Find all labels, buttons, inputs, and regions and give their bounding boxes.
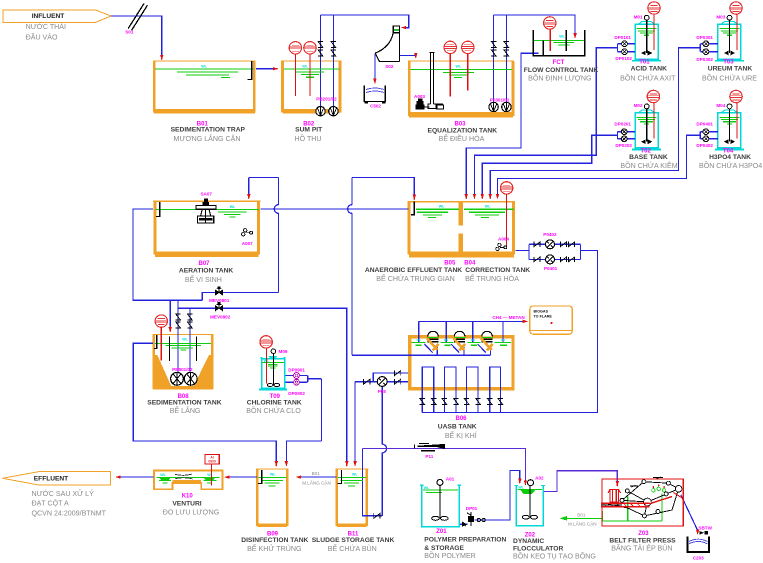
svg-text:M02: M02	[634, 103, 643, 108]
svg-text:P0401: P0401	[544, 266, 558, 271]
svg-text:WL: WL	[424, 486, 430, 490]
svg-text:BĂNG TẢI ÉP BÙN: BĂNG TẢI ÉP BÙN	[611, 543, 672, 552]
svg-text:BỒN CHỨA AXIT: BỒN CHỨA AXIT	[620, 73, 676, 83]
svg-text:BỂ KHỬ TRÙNG: BỂ KHỬ TRÙNG	[247, 544, 301, 553]
svg-text:WL: WL	[456, 65, 462, 69]
svg-text:PB801/02: PB801/02	[172, 367, 193, 372]
svg-text:H3PO4 TANK: H3PO4 TANK	[709, 154, 751, 161]
svg-text:FCT: FCT	[553, 60, 565, 66]
svg-text:S01: S01	[125, 30, 134, 35]
svg-text:NƯỚC SAU XỬ LÝ: NƯỚC SAU XỬ LÝ	[32, 489, 95, 498]
svg-text:BIOGAS: BIOGAS	[534, 310, 549, 314]
svg-text:M01: M01	[634, 15, 643, 20]
svg-text:WL: WL	[559, 35, 565, 39]
svg-text:ĐẠT CỘT A: ĐẠT CỘT A	[32, 499, 69, 508]
svg-text:VENTURI: VENTURI	[172, 501, 201, 508]
svg-text:B06: B06	[455, 416, 467, 422]
svg-text:P0402: P0402	[543, 232, 557, 237]
svg-text:BỒN CHỨA H3PO4: BỒN CHỨA H3PO4	[699, 160, 762, 170]
svg-text:DP0102: DP0102	[615, 56, 632, 61]
svg-text:UASB TANK: UASB TANK	[438, 423, 477, 430]
svg-text:WL: WL	[230, 205, 236, 209]
svg-text:BỂ TRUNG HÒA: BỂ TRUNG HÒA	[465, 274, 519, 283]
svg-text:SLUDGE STORAGE TANK: SLUDGE STORAGE TANK	[312, 537, 395, 544]
svg-text:DYNAMIC: DYNAMIC	[513, 538, 544, 545]
svg-text:A004: A004	[498, 237, 509, 242]
svg-text:EQUALIZATION TANK: EQUALIZATION TANK	[428, 128, 498, 135]
svg-text:HỒ THU: HỒ THU	[294, 133, 321, 143]
svg-text:WL: WL	[518, 486, 524, 490]
svg-text:BỒN KEO TỤ TẠO BÔNG: BỒN KEO TỤ TẠO BÔNG	[513, 550, 596, 560]
svg-text:M03: M03	[716, 15, 725, 20]
svg-text:B05: B05	[444, 261, 456, 267]
svg-text:SUM PIT: SUM PIT	[295, 127, 323, 134]
svg-text:B07: B07	[198, 261, 210, 267]
svg-text:BỂ KỊ KHÍ: BỂ KỊ KHÍ	[445, 431, 477, 440]
svg-text:BỒN CHỨA KIỀM: BỒN CHỨA KIỀM	[620, 160, 677, 170]
svg-text:NƯỚC THẢI: NƯỚC THẢI	[26, 22, 66, 31]
svg-text:WL: WL	[302, 64, 308, 68]
svg-text:BELT FILTER PRESS: BELT FILTER PRESS	[609, 537, 676, 544]
svg-text:DP0901: DP0901	[288, 367, 305, 372]
svg-text:CHLORINE TANK: CHLORINE TANK	[247, 400, 302, 407]
svg-text:WL: WL	[439, 205, 445, 209]
svg-text:DP0201: DP0201	[614, 122, 631, 127]
svg-text:B03: B03	[454, 121, 466, 127]
svg-text:A007: A007	[242, 241, 253, 246]
svg-text:DP0902: DP0902	[288, 391, 305, 396]
svg-text:SBTW: SBTW	[698, 526, 712, 531]
svg-text:C203: C203	[693, 556, 704, 561]
svg-text:BỂ CHỨA TRUNG GIAN: BỂ CHỨA TRUNG GIAN	[376, 274, 454, 283]
svg-text:B01: B01	[312, 471, 321, 476]
svg-text:POLYMER PREPARATION: POLYMER PREPARATION	[424, 536, 506, 543]
svg-text:WL: WL	[182, 337, 188, 341]
svg-text:A003: A003	[414, 94, 425, 99]
svg-text:INFLUENT: INFLUENT	[32, 13, 65, 20]
svg-text:P0301/02: P0301/02	[490, 98, 510, 103]
svg-text:M09: M09	[279, 349, 288, 354]
svg-text:WL: WL	[270, 473, 276, 477]
svg-text:Z01: Z01	[436, 529, 447, 535]
svg-text:A02: A02	[535, 475, 544, 480]
svg-text:MƯƠNG LẮNG CẶN: MƯƠNG LẮNG CẶN	[174, 134, 241, 143]
svg-text:MEV0802: MEV0802	[210, 315, 231, 320]
svg-text:MEV0801: MEV0801	[209, 298, 230, 303]
svg-text:M04: M04	[716, 103, 725, 108]
svg-text:BỒN CHỨA CLO: BỒN CHỨA CLO	[246, 405, 301, 415]
svg-text:WL: WL	[207, 473, 213, 477]
svg-text:ĐẦU VÀO: ĐẦU VÀO	[26, 31, 58, 41]
svg-text:AERATION TANK: AERATION TANK	[179, 267, 234, 274]
svg-text:WL: WL	[352, 473, 358, 477]
svg-text:EFFLUENT: EFFLUENT	[34, 476, 68, 483]
svg-text:DP0101: DP0101	[614, 35, 631, 40]
svg-text:B04: B04	[464, 261, 476, 267]
svg-text:DP0401: DP0401	[696, 122, 713, 127]
svg-text:0809: 0809	[208, 460, 216, 464]
svg-text:BỂ VI SINH: BỂ VI SINH	[185, 275, 222, 284]
svg-text:ĐO LƯU LƯỢNG: ĐO LƯU LƯỢNG	[163, 509, 219, 517]
svg-text:SEDIMENTATION TANK: SEDIMENTATION TANK	[147, 400, 221, 407]
svg-text:CH4 — METAN: CH4 — METAN	[492, 315, 525, 320]
svg-text:WL: WL	[485, 205, 491, 209]
svg-text:CORRECTION TANK: CORRECTION TANK	[465, 267, 530, 274]
svg-text:DISINFECTION TANK: DISINFECTION TANK	[241, 537, 308, 544]
svg-text:P11: P11	[425, 454, 433, 459]
svg-text:K10: K10	[182, 494, 194, 500]
svg-text:& STORAGE: & STORAGE	[424, 545, 464, 552]
svg-text:M.LẮNG CẶN: M.LẮNG CẶN	[568, 520, 597, 527]
svg-text:SA07: SA07	[200, 192, 212, 197]
svg-text:BỂ LẮNG: BỂ LẮNG	[170, 406, 201, 415]
svg-text:PB201/02: PB201/02	[316, 96, 337, 101]
svg-text:C502: C502	[370, 104, 381, 109]
svg-text:FLOW CONTROL TANK: FLOW CONTROL TANK	[524, 67, 599, 74]
svg-text:WL: WL	[201, 64, 207, 68]
svg-text:ANAEROBIC EFFLUENT TANK: ANAEROBIC EFFLUENT TANK	[365, 267, 462, 274]
svg-text:DP01: DP01	[466, 506, 478, 511]
svg-text:Z03: Z03	[638, 531, 649, 537]
svg-text:S02: S02	[385, 64, 394, 69]
svg-text:WL: WL	[160, 473, 166, 477]
svg-text:DP0301: DP0301	[696, 35, 713, 40]
svg-text:BỒN CHỨA URE: BỒN CHỨA URE	[702, 73, 757, 83]
svg-text:SEDIMENTATION TRAP: SEDIMENTATION TRAP	[171, 127, 246, 134]
svg-text:BASE TANK: BASE TANK	[629, 154, 668, 161]
svg-text:BỂ ĐIỀU HÒA: BỂ ĐIỀU HÒA	[439, 133, 485, 143]
svg-text:A01: A01	[446, 477, 455, 482]
svg-text:B01: B01	[577, 512, 586, 517]
svg-text:BỒN ĐỊNH LƯỢNG: BỒN ĐỊNH LƯỢNG	[528, 73, 591, 83]
svg-text:UREUM TANK: UREUM TANK	[708, 66, 753, 73]
svg-text:P08: P08	[378, 389, 387, 394]
svg-text:DP0402: DP0402	[696, 143, 713, 148]
svg-text:QCVN 24:2009/BTNMT: QCVN 24:2009/BTNMT	[32, 509, 107, 517]
svg-text:BỂ CHỨA BÙN: BỂ CHỨA BÙN	[328, 544, 377, 553]
svg-text:DP0302: DP0302	[696, 57, 713, 62]
svg-text:M.LẮNG CẶN: M.LẮNG CẶN	[302, 479, 331, 486]
svg-text:DP0202: DP0202	[615, 143, 632, 148]
svg-text:TO FLARE: TO FLARE	[534, 315, 553, 319]
svg-text:BỒN POLYMER: BỒN POLYMER	[424, 550, 476, 560]
svg-text:ACID TANK: ACID TANK	[631, 66, 667, 73]
